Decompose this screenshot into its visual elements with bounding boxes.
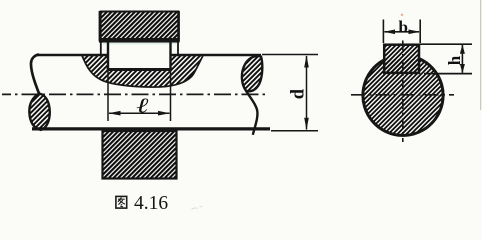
hub section lower block [103, 131, 177, 179]
svg-text:b: b [399, 18, 408, 37]
left break S-curve [31, 55, 39, 94]
hub section upper block [99, 11, 180, 42]
dimension h line with arrows [460, 45, 465, 74]
svg-text:4.16: 4.16 [134, 193, 168, 214]
shaft local section hatch around keyway [82, 56, 203, 88]
break line sweep curve [82, 56, 203, 88]
svg-text:d: d [288, 88, 308, 99]
caption glyph TU (drawn) [116, 196, 127, 208]
dimension b line with arrows [384, 30, 420, 35]
svg-text:ℓ: ℓ [136, 94, 149, 118]
shaft top line [37, 54, 261, 57]
right break thin S tail [246, 91, 257, 135]
right break hatched lens [242, 56, 262, 91]
dimension l extension lines [107, 71, 109, 122]
scan smudge [192, 206, 203, 209]
dimension d line with arrows [304, 55, 309, 130]
dimension b extension lines [382, 20, 384, 44]
svg-text:h: h [445, 55, 464, 65]
hub side faces [100, 42, 102, 56]
scan speck [401, 14, 403, 16]
horizontal centerline [351, 94, 454, 96]
dimension h extension lines [420, 43, 472, 45]
shaft bottom line [32, 127, 270, 130]
dimension d extension lines [262, 54, 318, 56]
key cross-section [384, 45, 419, 73]
vertical centerline [402, 41, 404, 143]
centerline shaft axis [2, 93, 267, 95]
scan tint under hub [103, 43, 176, 45]
page edge scan line right [480, 0, 482, 110]
left break hatched lens [29, 94, 49, 130]
dimension l line with arrows [108, 111, 170, 116]
key (longitudinal, unsectioned) [107, 42, 172, 71]
shaft circle section [363, 59, 443, 136]
